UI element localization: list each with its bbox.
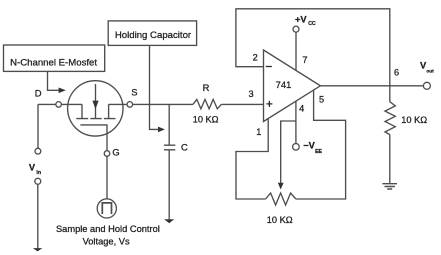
- svg-text:5: 5: [319, 95, 324, 105]
- svg-text:7: 7: [302, 55, 307, 65]
- svg-text:+V: +V: [295, 14, 307, 24]
- svg-text:10 KΩ: 10 KΩ: [193, 115, 219, 125]
- svg-text:741: 741: [276, 79, 292, 90]
- svg-text:N-Channel E-Mosfet: N-Channel E-Mosfet: [10, 58, 97, 69]
- svg-text:V: V: [29, 162, 36, 172]
- svg-text:10 KΩ: 10 KΩ: [401, 115, 427, 125]
- svg-text:D: D: [35, 88, 42, 99]
- svg-text:C: C: [181, 141, 188, 152]
- svg-text:EE: EE: [315, 149, 322, 155]
- svg-text:Holding Capacitor: Holding Capacitor: [115, 30, 192, 41]
- svg-text:2: 2: [253, 53, 258, 63]
- svg-text:6: 6: [394, 68, 399, 78]
- svg-text:1: 1: [256, 127, 261, 137]
- svg-text:−V: −V: [303, 141, 315, 151]
- svg-text:3: 3: [248, 89, 253, 99]
- svg-text:G: G: [112, 147, 119, 158]
- svg-text:CC: CC: [308, 21, 316, 27]
- svg-text:4: 4: [299, 104, 304, 114]
- svg-text:Voltage, Vs: Voltage, Vs: [83, 237, 130, 247]
- svg-text:R: R: [203, 82, 210, 93]
- svg-text:Sample and Hold Control: Sample and Hold Control: [56, 224, 160, 234]
- svg-text:out: out: [426, 68, 434, 73]
- svg-text:in: in: [36, 170, 41, 176]
- svg-text:10 KΩ: 10 KΩ: [267, 215, 293, 225]
- svg-text:S: S: [131, 86, 137, 97]
